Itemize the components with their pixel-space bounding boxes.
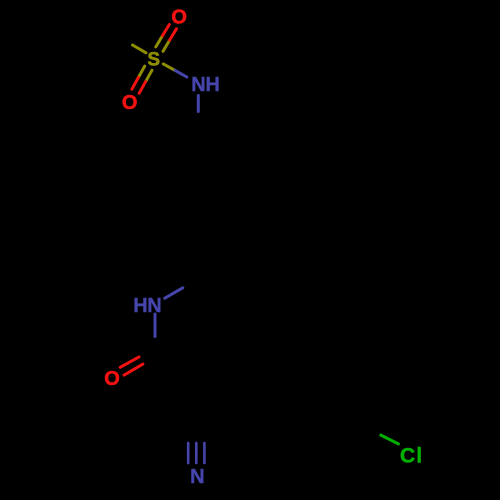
S=O left double bond line 2 [146,70,152,82]
N-C bond below NH (blue half) [197,96,200,112]
svg-text:HN: HN [133,295,161,317]
svg-text:O: O [104,368,120,390]
C=O double bond red halves [120,357,139,367]
svg-text:S: S [147,50,160,71]
S=O left double bond line 1 [138,66,144,78]
svg-text:N: N [190,466,204,488]
svg-text:O: O [122,92,138,114]
amide N bond up-right (blue half) [165,288,183,298]
S-N bond [163,64,175,71]
methyl-S bond (olive half) [133,45,147,53]
nitrile triple bond (blue halves) [187,443,190,463]
S=O top double bond line 2 [156,36,163,47]
C-Cl bond (green half) [381,435,399,444]
S=O top double bond line 1 [163,40,170,51]
svg-text:O: O [171,7,187,29]
svg-text:NH: NH [191,74,219,96]
amide N-C(=O) bond (blue half) [154,314,157,337]
svg-text:Cl: Cl [400,445,423,468]
